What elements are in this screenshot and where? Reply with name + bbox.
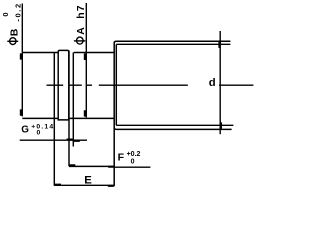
groove right wall [72,53,74,147]
cylinder step face [113,42,115,187]
svg-text:d: d [209,77,216,89]
dim phiB line [21,4,23,117]
shaft top edge [22,52,114,54]
svg-text:+0.14: +0.14 [31,123,54,130]
collar [58,50,69,120]
cylinder bottom chamfer line [116,124,233,126]
dim F line [69,165,114,167]
groove left wall [68,51,70,167]
shaft bottom edge [22,117,114,119]
dim d ticks [220,42,221,129]
dim phiB ticks [20,53,22,115]
dim F ticks [69,165,114,166]
cylinder bottom outer edge [114,127,231,129]
svg-text:Ah7: Ah7 [75,4,87,34]
cylinder top chamfer line [116,43,230,45]
centerline [47,84,254,86]
svg-text:F: F [118,151,125,163]
dim E line [54,184,114,186]
shaft left end face [53,52,55,186]
cylinder chamfer face line [115,44,117,125]
dim G ticks [67,140,80,141]
phi symbol of phiB [10,38,16,45]
dim E ticks [55,185,114,186]
cylinder top outer edge [114,41,230,43]
phi symbol of phiA [77,37,84,44]
dim F shelf [114,166,150,168]
dim G line [20,139,87,141]
dim d line [219,31,221,134]
svg-text:+0.2: +0.2 [127,151,141,158]
dim phiA line [85,3,87,117]
svg-text:0: 0 [131,158,135,165]
svg-text:G: G [21,124,29,135]
svg-text:E: E [84,175,92,187]
dim phiA ticks [84,54,86,117]
svg-text:0: 0 [37,130,41,137]
